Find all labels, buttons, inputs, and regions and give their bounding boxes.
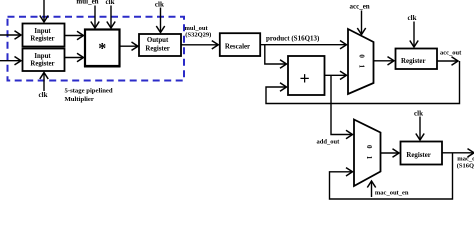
svg-text:add_out: add_out	[317, 139, 341, 146]
wire Input Register 1 to multiplier	[65, 35, 84, 37]
svg-text:1: 1	[358, 65, 366, 69]
input register R2	[23, 49, 65, 72]
wire multiplier to Output Register	[120, 45, 139, 47]
wire mux2 to Register (mac)	[380, 152, 399, 154]
wire clk into acc register	[413, 22, 415, 48]
wire product branch to adder	[265, 45, 287, 64]
svg-text:Rescaler: Rescaler	[225, 43, 250, 50]
svg-text:mac_out_en: mac_out_en	[375, 189, 409, 196]
svg-text:Register: Register	[30, 35, 54, 42]
wire mac_out_en into mux2 select	[371, 181, 373, 197]
wire product to mux1 input 0	[260, 44, 346, 46]
svg-text:clk: clk	[408, 14, 417, 22]
svg-text:Register: Register	[145, 45, 170, 52]
adder U2	[288, 56, 325, 95]
output register	[139, 34, 181, 56]
wire clk into multiplier	[110, 6, 112, 29]
svg-text:product (S16Q13): product (S16Q13)	[266, 34, 320, 42]
wire mac feedback to mux2 input 1	[330, 153, 453, 199]
mux M2	[354, 120, 381, 187]
svg-text:Register: Register	[30, 60, 54, 67]
wire input B into Input Register 2	[0, 60, 21, 62]
dashed boundary of 5-stage pipelined multiplier	[8, 17, 185, 81]
svg-text:Input: Input	[34, 28, 51, 35]
svg-text:(S16Q13): (S16Q13)	[457, 162, 474, 169]
svg-text:clk: clk	[106, 0, 115, 6]
wire acc_out	[437, 60, 458, 62]
svg-text:Input: Input	[34, 53, 51, 60]
svg-text:acc_out: acc_out	[440, 50, 462, 57]
wire mux1 to Register (acc)	[374, 60, 395, 62]
svg-text:mul_en: mul_en	[76, 0, 98, 6]
wire input A into Input Register 1	[0, 34, 21, 36]
svg-text:Register: Register	[406, 152, 431, 159]
svg-text:+: +	[299, 68, 309, 88]
multiplier U1	[85, 30, 120, 67]
wire Input Register 2 to multiplier	[65, 57, 84, 59]
wire mul_out to Rescaler	[181, 44, 218, 46]
wire clk into Input Register 1 top	[43, 0, 45, 22]
svg-text:5-stage pipelined: 5-stage pipelined	[65, 88, 113, 95]
register (acc)	[396, 49, 438, 70]
svg-text:clk: clk	[39, 91, 48, 99]
wire mul_en into multiplier	[94, 6, 96, 29]
svg-text:0: 0	[358, 54, 366, 58]
mux M1	[348, 29, 374, 94]
svg-text:(S32Q29): (S32Q29)	[185, 31, 211, 38]
wire mac_out	[442, 152, 474, 154]
wire add_out branch to mux2 input 0	[331, 75, 353, 134]
input register R1	[23, 24, 65, 47]
svg-text:clk: clk	[414, 110, 423, 118]
svg-text:clk: clk	[155, 0, 164, 8]
wire clk into mac register	[419, 117, 421, 141]
wire adder out to mux1 input 1	[325, 74, 347, 76]
wire acc_en into mux1 select	[361, 11, 363, 35]
svg-text:1: 1	[365, 156, 373, 160]
wire acc feedback to adder	[266, 61, 460, 104]
svg-text:acc_en: acc_en	[349, 3, 369, 11]
svg-text:Multiplier: Multiplier	[65, 96, 94, 103]
svg-text:0: 0	[365, 145, 373, 149]
svg-text:Output: Output	[147, 37, 169, 44]
rescaler block	[220, 33, 260, 56]
svg-text:Register: Register	[401, 58, 426, 65]
svg-text:*: *	[98, 41, 106, 58]
wire clk into Input Register 2 bottom	[43, 73, 45, 92]
wire clk into Output Register	[160, 8, 162, 33]
register (mac)	[401, 142, 443, 165]
